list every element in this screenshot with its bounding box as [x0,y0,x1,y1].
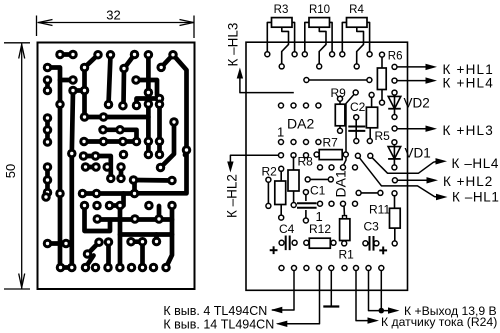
pad [55,189,65,199]
capacitor C1 lead top [305,194,307,201]
pad [161,263,171,273]
hole R9 bottom [338,128,343,133]
wire [157,99,162,105]
hole R7 right [343,152,348,157]
hole C2 bottom [354,139,359,144]
pad [80,86,90,96]
resistor R6 leads [381,57,383,102]
hole R2 bottom [279,215,284,220]
hole C4 right [292,240,297,245]
hole VD2 anode [392,90,397,95]
wire [121,194,126,206]
wire [73,88,85,93]
dimension line 50 [21,44,23,289]
wire [48,241,67,246]
dimension line 32 [38,22,195,24]
resistor R9 [335,104,345,126]
svg-text:1: 1 [277,125,284,140]
pad [43,113,53,123]
wire K +HL4 [397,80,427,82]
svg-text:50: 50 [3,164,18,178]
pad [104,100,114,110]
svg-text:R10: R10 [309,4,330,16]
pad [130,214,140,224]
wire [132,181,137,194]
arrow K -HL3 [237,68,243,79]
pad [104,237,114,247]
capacitor C2 leads [355,119,357,139]
pad [167,201,177,211]
pad [83,249,93,259]
svg-text:C2: C2 [350,100,366,114]
wire jumper [267,182,269,205]
arrow K -HL1 [436,194,448,200]
svg-text:R7: R7 [323,135,339,149]
resistor R1 lead bottom [343,241,345,243]
hole R4 lead 2 [367,52,372,57]
pad [68,50,78,60]
pad [80,201,90,211]
pad [119,64,129,74]
pad [115,201,125,211]
diode VD2 [388,96,401,108]
wire [161,122,175,168]
svg-text:R6: R6 [388,51,403,63]
hole C2 top [354,115,359,120]
hole [378,190,383,195]
wire [110,203,121,208]
pad [103,263,113,273]
svg-text:К –HL1: К –HL1 [452,190,500,205]
wire [85,206,111,232]
resistor R7 leads [317,154,346,156]
resistor R12 leads [307,242,334,244]
wire K vykhod 2 [380,271,382,311]
wire K datchiku [356,271,368,321]
wire [61,265,72,270]
hole VD1 cathode [392,165,397,170]
pad [144,201,154,211]
wire [118,206,123,268]
pad [99,112,109,122]
pad [91,162,101,172]
svg-text:R5: R5 [375,129,391,143]
hole R6 bottom [380,100,385,105]
ground wire [330,271,332,307]
wire to K -HL3 [240,77,294,93]
resistor R6 [377,68,386,90]
capacitor C3 [370,236,374,251]
pad [105,201,115,211]
wire [45,80,50,91]
resistor R11 lead bottom [394,228,396,241]
pad [144,137,154,147]
op-amp DA1 pads [318,165,323,170]
wire [166,206,172,268]
svg-text:К +HL2: К +HL2 [443,174,493,189]
wire [131,239,143,244]
hole R5 bottom [367,139,372,144]
wire [157,206,162,220]
capacitor C1 [297,203,317,207]
hole R11 top [392,191,397,196]
svg-text:R1: R1 [339,247,355,261]
svg-text:К +HL4: К +HL4 [443,75,494,90]
op-amp DA2 pads [279,103,284,108]
hole R3 lead 1 [265,52,270,57]
diode VD2 leads [394,95,396,116]
svg-text:DA2: DA2 [287,116,314,132]
hole K +HL3 [392,126,397,131]
wire [86,165,97,170]
arrow K vykhod [388,307,400,313]
plus C3 [379,249,387,251]
pad [116,174,126,184]
wire K vykhod [369,271,390,311]
hole C1 bottom [303,218,308,223]
hole C4 left [279,240,284,245]
pad [130,50,140,60]
pad [81,263,91,273]
pad [55,100,65,110]
hole R3 lead 3 [279,64,284,69]
pad [43,239,53,249]
pad [43,175,53,185]
hole [367,78,372,83]
resistor R2 lead top [280,171,282,182]
hole [355,153,360,158]
hole VD1 anode [392,140,397,145]
hole R12 right [331,240,336,245]
pad [118,137,128,147]
hole [353,90,358,95]
pad [144,99,154,109]
svg-text:К –HL4: К –HL4 [452,156,500,171]
wire [109,55,111,105]
resistor R1 [340,219,350,241]
hole [356,190,361,195]
wire [60,52,73,57]
pad [93,214,103,224]
pad [119,150,129,160]
arrow K +HL4 [426,77,438,83]
pad [43,162,53,172]
arrow K datchiku [368,317,380,323]
capacitor C1 lead bottom [305,210,307,219]
diode VD1 leads [393,144,395,166]
pad [144,88,154,98]
pad [169,117,179,127]
svg-text:К –HL2: К –HL2 [224,174,239,218]
right PCB board outline [246,42,408,290]
svg-text:R3: R3 [274,4,289,16]
hole R3 lead 2 [292,52,297,57]
pad [61,239,71,249]
wire [146,55,151,93]
svg-text:К выв. 14 TL494CN: К выв. 14 TL494CN [163,317,274,331]
pad [80,63,90,73]
wire jumper [361,192,378,194]
wire to K -HL2 [230,155,282,163]
pad [132,101,142,111]
resistor R4 [347,18,368,28]
arrow K -HL2 [227,162,233,173]
arrow K +HL2 [427,177,439,183]
wire [72,91,73,268]
wire [97,217,172,222]
wire [119,167,124,178]
pad [155,137,165,147]
wire [84,139,137,144]
pad [155,94,165,104]
hole C1 top [303,190,308,195]
resistor R8 lead top [293,157,295,171]
hole VD2 cathode [392,115,397,120]
pad [129,175,139,185]
svg-text:К +HL3: К +HL3 [443,123,494,138]
svg-text:R8: R8 [298,155,314,169]
pad [106,50,116,60]
wire [106,242,111,268]
svg-text:К –HL3: К –HL3 [226,23,241,67]
hole [266,177,271,182]
wire [60,78,73,83]
hole R7 left [314,152,319,157]
wire jumper [310,178,329,180]
hole R10 lead 1 [302,52,307,57]
wire [84,156,111,178]
resistor R3 leads [267,22,271,51]
wire K vyv 14 [278,271,320,324]
wire [157,104,162,154]
pad [93,50,103,60]
pad [41,192,51,202]
pad [78,189,88,199]
hole R8 bottom [291,203,296,208]
wire K +HL2 [397,179,428,181]
wire [120,232,172,237]
hole K +HL2 [392,178,397,183]
pad [167,176,177,186]
wire [103,130,137,142]
hole R5 top [369,92,374,97]
svg-text:R12: R12 [309,222,331,236]
svg-text:32: 32 [106,7,120,22]
resistor R8 [288,170,299,191]
resistor R10 leads [305,22,309,51]
wire K vyv 4 [272,271,294,311]
svg-text:R4: R4 [349,4,364,16]
pad [98,125,108,135]
svg-text:К выв. 4 TL494CN: К выв. 4 TL494CN [163,304,267,318]
pad [132,137,142,147]
pad [67,263,77,273]
svg-text:R2: R2 [262,165,278,179]
wire [140,242,145,268]
wire K -HL1 [358,156,438,197]
hole C3 right [374,241,379,246]
wire [161,55,173,68]
svg-text:C1: C1 [310,183,326,197]
svg-text:R11: R11 [369,203,390,217]
pad [152,237,162,247]
resistor R11 lead top [394,196,396,209]
resistor R5 [366,107,377,128]
diode VD1 [388,147,401,159]
wire [185,150,186,155]
pad [68,86,78,96]
resistor R7 [319,150,342,160]
svg-text:C3: C3 [364,219,380,233]
pad [43,137,53,147]
pad [56,263,66,273]
pad [115,125,125,135]
pad [92,189,102,199]
pad [43,86,53,96]
wire [45,167,50,193]
wire K +HL3 [397,128,427,130]
wire [88,242,100,254]
pad [43,75,53,85]
svg-text:C4: C4 [279,222,295,236]
svg-text:DA1: DA1 [333,170,349,197]
pad [144,150,154,160]
resistor R5 lead top [371,97,373,108]
pad [80,112,90,122]
pad [79,151,89,161]
resistor R5 lead bottom [369,128,371,140]
resistor R1 lead top [343,206,346,219]
wire [306,79,369,81]
hole R12 left [304,240,309,245]
pad [182,145,192,155]
wire [343,93,355,166]
resistor R10 [309,18,330,28]
hole [266,203,271,208]
arrow K +HL1 [426,64,438,70]
left PCB board outline [38,43,195,290]
pad [43,63,53,73]
pad [131,75,141,85]
wire [86,256,94,268]
resistor R8 lead bottom [293,191,295,204]
hole K +HL1 [392,64,397,69]
pad [115,263,125,273]
wire K +HL1 [397,66,427,68]
wire K -HL4 [370,156,437,173]
arrow K vyv 14 [276,321,288,327]
pad [155,150,165,160]
pad [91,151,101,161]
wire [135,55,187,194]
pad [138,263,148,273]
pad [156,163,166,173]
wire [154,235,159,242]
pad [99,137,109,147]
svg-text:VD2: VD2 [404,96,430,111]
holes row [279,153,284,158]
wire [48,68,61,268]
junction dot [379,308,385,314]
hole C3 left [363,241,368,246]
hole R6 top [380,52,385,57]
resistor R11 [390,208,401,228]
pad [67,149,77,159]
pad [81,162,91,172]
pad [91,263,101,273]
wire [83,191,135,196]
hole R11 bottom [392,241,397,246]
capacitor C4 [286,236,290,251]
hole [304,78,309,83]
resistor R2 lead bottom [280,205,282,217]
pad [43,125,53,135]
wire [85,115,149,120]
hole R4 lead 3 [354,64,359,69]
wire [82,68,87,118]
pad [168,50,178,60]
pad [118,101,128,111]
hole R10 lead 3 [317,64,322,69]
resistor R12 [309,238,330,248]
wire [137,99,160,106]
hole [305,177,310,182]
holes bottom row [279,266,284,271]
resistor R2 [275,181,286,205]
hole R1 bottom [342,241,347,246]
wire [146,93,151,155]
resistor R4 leads [342,22,346,51]
pad [92,201,102,211]
pad [154,214,164,224]
pad [55,50,65,60]
wire [136,80,160,99]
hole [328,177,333,182]
resistor R1 top cap [343,216,347,219]
pad [126,237,136,247]
arrow K vyv 4 [271,307,283,313]
wire [124,55,135,69]
svg-text:R9: R9 [331,86,347,100]
pad [144,50,154,60]
svg-text:VD1: VD1 [405,146,431,161]
plus C4 [270,249,278,251]
pad [149,263,159,273]
pad [43,188,53,198]
arrow K +HL3 [426,126,438,132]
pad [156,63,166,73]
hole R4 lead 1 [340,52,345,57]
pad [127,263,137,273]
pad [106,174,116,184]
ground [323,305,339,307]
arrow K -HL4 [436,158,448,164]
pad [102,162,112,172]
pad [116,162,126,172]
pad [68,75,78,85]
hole R2 top [279,166,284,171]
pad [94,237,104,247]
pad [79,137,89,147]
pad [138,237,148,247]
capacitor C2 [348,127,365,131]
pad [130,189,140,199]
hole K +HL4 [392,78,397,83]
hole R9 top [338,96,343,101]
wire [121,69,126,105]
resistor R3 [272,18,293,28]
svg-text:К +Выход 13,9 В: К +Выход 13,9 В [404,304,497,318]
